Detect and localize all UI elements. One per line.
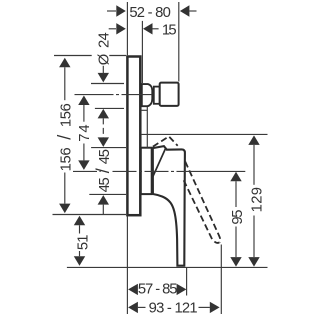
faucet valve sleeve (141, 148, 152, 194)
faucet wall plate (escutcheon) (127, 57, 140, 216)
dimension 45/45 column (98, 137, 109, 204)
svg-text:51: 51 (76, 235, 92, 250)
dimension 15 arrows (116, 23, 152, 34)
wire extension line plate top horizontal (54, 55, 126, 57)
faucet handle body and lever (153, 146, 185, 266)
dimension 51 column (74, 216, 85, 266)
wire extension line x=142 (15 dim right) (141, 21, 143, 83)
wire extension line sleeve-top vertical x=147.3 (146, 107, 148, 148)
dimension 52-80 arrows (116, 5, 189, 16)
svg-text:45 / 45: 45 / 45 (93, 149, 113, 192)
wire extension line bottom reference horizontal (67, 266, 268, 268)
dashed alternate lever back edge (184, 180, 220, 243)
dimension 57-85 arrows (128, 284, 186, 295)
faucet spout nut (160, 83, 179, 106)
wire extension line plate-left vertical top (126, 2, 128, 55)
dashed alternate lever front edge (185, 162, 220, 243)
dimension Ø24 leader column (98, 73, 109, 119)
node center line handle axis (73, 170, 245, 172)
svg-text:93 - 121: 93 - 121 (149, 301, 198, 317)
svg-text:52 - 80: 52 - 80 (129, 5, 170, 21)
svg-text:95: 95 (230, 210, 246, 225)
node center line spout axis (75, 94, 153, 96)
svg-text:15: 15 (162, 23, 176, 39)
faucet handle inner edge (153, 149, 165, 177)
svg-text:129: 129 (250, 187, 266, 213)
svg-text:74: 74 (77, 123, 93, 141)
wire extension line valve bottom horizontal (89, 193, 126, 195)
wire extension line handle front vertical x=186.6 (186, 268, 188, 296)
dimension 129 column (248, 135, 259, 266)
svg-text:156 / 156: 156 / 156 (54, 103, 74, 171)
wire extension line valve top horizontal (91, 147, 126, 149)
dashed alternate handle top edges (153, 137, 221, 243)
dimension 74 column (78, 96, 89, 170)
dimension 156/156 column (59, 58, 70, 213)
svg-text:Ø 24: Ø 24 (96, 32, 112, 65)
wire step line at plate right y=110.3 (141, 109, 148, 111)
dimension 95 column (230, 172, 241, 267)
wire extension line 129 top horizontal (141, 133, 268, 135)
dimension 93-121 arrows (128, 302, 220, 313)
wire extension line plate bottom horizontal (53, 214, 127, 216)
wire extension line below plate vertical x=127 (126, 216, 128, 314)
faucet spout cylinder neck (154, 87, 160, 104)
wire extension line bell top horizontal (91, 83, 124, 85)
svg-text:57 - 85: 57 - 85 (138, 282, 177, 298)
faucet spout bell (142, 84, 153, 106)
wire extension line dashed-tip vertical x=221.3 (220, 245, 222, 315)
wire extension line nut right face vertical (178, 2, 180, 82)
wire extension line bell bottom horizontal (95, 107, 124, 109)
